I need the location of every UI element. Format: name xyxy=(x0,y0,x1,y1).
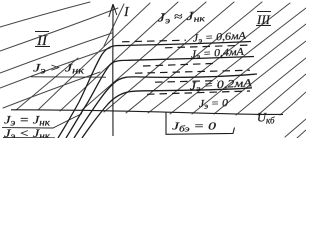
svg-text:Jэ = 0: Jэ = 0 xyxy=(199,98,229,111)
svg-text:III: III xyxy=(256,12,271,27)
label region III xyxy=(256,12,271,28)
svg-text:I: I xyxy=(123,5,130,20)
dashed line below C3 xyxy=(155,81,218,83)
label Je = Jnk with underline and leader xyxy=(2,113,82,129)
svg-text:Uкб: Uкб xyxy=(257,111,275,126)
curve C1 Je=0.6mA xyxy=(58,42,251,139)
svg-text:Jэ ≈ Jнк: Jэ ≈ Jнк xyxy=(157,8,206,26)
dashed line above C3 xyxy=(135,70,250,73)
curve C3 Je=0.2mA xyxy=(74,74,257,138)
dashed line below C4 xyxy=(147,91,250,94)
dashed line below C1 xyxy=(165,45,252,48)
dashed line below C2 xyxy=(143,63,215,66)
horizontal axis (Ukb) xyxy=(11,110,283,115)
svg-text:Jэ > Jнк: Jэ > Jнк xyxy=(33,61,85,76)
label region II xyxy=(35,32,50,50)
curve C2 Je=0.4mA xyxy=(66,57,254,139)
hatch family B (steep, middle and right regions) xyxy=(16,2,306,115)
label Je > Jnk with underline xyxy=(31,61,106,78)
vertical axis (Ik) xyxy=(112,5,114,136)
dashed line above C1 knee xyxy=(122,40,186,42)
hatch bottom-right corner below axis xyxy=(285,119,306,138)
axis arrowhead xyxy=(109,4,117,17)
hatch family A (sparse, upper-left region II) xyxy=(0,2,118,108)
box with label Jbe = 0 xyxy=(166,113,235,135)
label Je < Jnk with underline xyxy=(3,126,55,141)
curve C4 Je=0 xyxy=(82,88,252,138)
svg-text:Jбэ = 0: Jбэ = 0 xyxy=(172,121,217,134)
